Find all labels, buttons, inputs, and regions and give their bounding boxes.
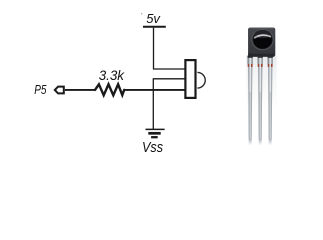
wire 5v rail to receiver pin 1 [154,28,186,69]
lens ring [252,29,273,49]
wire receiver pin 2 to ground [153,79,185,130]
package tabs [248,55,273,58]
leg 1 [248,57,253,146]
wire resistor to receiver pin 3 [124,89,185,91]
photo shadow under package [0,0,1,1]
power rail 5v [143,26,166,28]
pin P5 [55,87,64,94]
leg 2 [258,57,263,146]
lens highlight [255,35,270,37]
svg-text:3.3k: 3.3k [99,67,125,83]
lens upper sheen [255,30,271,38]
leg 3 [268,57,273,146]
resistor 3.3k [95,84,124,95]
ground Vss [146,129,165,137]
svg-text:Vss: Vss [142,140,163,156]
IR receiver photo [246,28,277,146]
svg-text:P5: P5 [34,82,47,97]
lens inner [253,31,271,48]
IR receiver symbol dome [197,72,205,88]
wire P5 to resistor [65,89,95,91]
package body [248,28,275,57]
svg-text:5v: 5v [146,11,161,26]
IR receiver symbol body [185,60,195,98]
